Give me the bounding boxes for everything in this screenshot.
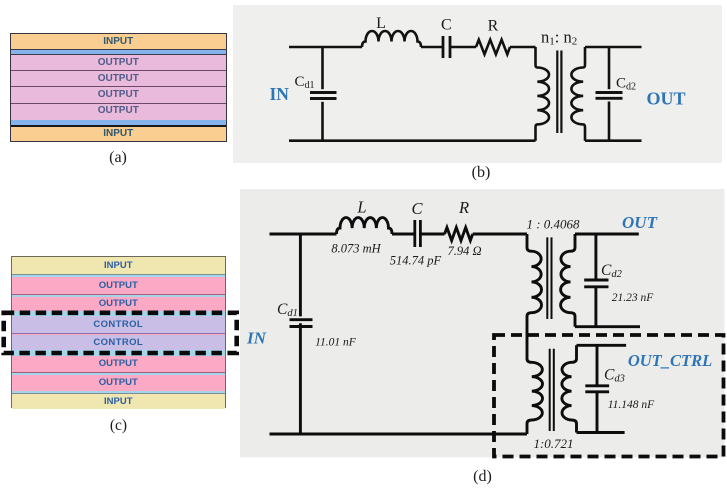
caption (b) bbox=[466, 164, 496, 182]
wire bottom bbox=[289, 139, 536, 142]
wire OUT_CTRL top bbox=[577, 344, 627, 347]
svg-text:C: C bbox=[411, 199, 423, 218]
caption (d) bbox=[468, 468, 498, 486]
svg-text:R: R bbox=[488, 18, 499, 35]
wire secondary bottom to OUT bbox=[585, 139, 642, 142]
capacitor Cd2 bbox=[608, 47, 611, 89]
svg-text:OUT: OUT bbox=[647, 89, 686, 109]
separator blue bbox=[12, 391, 226, 394]
wire top mid1 bbox=[392, 233, 415, 236]
svg-text:OUT: OUT bbox=[622, 213, 658, 232]
caption (a) bbox=[103, 149, 133, 167]
wire top mid3 bbox=[473, 233, 527, 236]
svg-text:11.148 nF: 11.148 nF bbox=[608, 399, 655, 411]
layer OUTPUT 4 bbox=[11, 104, 227, 119]
separator blue bbox=[12, 275, 226, 277]
svg-text:1 : 0.4068: 1 : 0.4068 bbox=[526, 217, 580, 232]
wire OUT top bbox=[575, 233, 639, 236]
electrode black line bbox=[11, 125, 227, 128]
panel background bbox=[240, 189, 725, 457]
svg-text:7.94 Ω: 7.94 Ω bbox=[447, 244, 481, 258]
resistor R bbox=[476, 40, 510, 55]
wire OUT_CTRL bottom bbox=[577, 431, 625, 434]
layer OUTPUT 1 bbox=[11, 56, 227, 71]
layer OUTPUT 3 bbox=[12, 356, 226, 374]
transformer T1 secondary winding bbox=[561, 234, 575, 327]
layer INPUT top bbox=[12, 257, 226, 275]
wire secondary top to OUT bbox=[585, 46, 642, 49]
transformer T1 core bbox=[546, 237, 548, 319]
svg-text:11.01 nF: 11.01 nF bbox=[315, 337, 357, 349]
svg-text:IN: IN bbox=[270, 84, 290, 104]
transformer T1+T2 primary windings bbox=[527, 234, 542, 434]
layer CONTROL 2 bbox=[12, 335, 226, 351]
separator blue bbox=[12, 373, 226, 375]
svg-text:514.74 pF: 514.74 pF bbox=[390, 254, 442, 268]
inductor L bbox=[362, 31, 421, 47]
caption (c) bbox=[104, 417, 134, 435]
transformer secondary winding bbox=[571, 47, 585, 141]
layer INPUT bottom bbox=[12, 394, 226, 409]
wire OUT bottom bbox=[575, 325, 640, 328]
resistor R bbox=[445, 228, 473, 241]
panel background bbox=[233, 5, 722, 163]
layer OUTPUT 4 bbox=[12, 375, 226, 391]
dashed box OUT_CTRL bbox=[494, 335, 724, 457]
layer OUTPUT 1 bbox=[12, 277, 226, 295]
svg-text:8.073 mH: 8.073 mH bbox=[331, 242, 381, 256]
capacitor Cd3 bbox=[596, 345, 599, 386]
separator blue (under dashes) bbox=[12, 350, 226, 356]
svg-text:21.23 nF: 21.23 nF bbox=[612, 292, 655, 304]
capacitor C bbox=[413, 220, 416, 247]
layer OUTPUT 2 bbox=[11, 72, 227, 88]
dashed selection box around CONTROL layers bbox=[0, 305, 245, 361]
layer OUTPUT 3 bbox=[11, 88, 227, 104]
svg-text:OUT_CTRL: OUT_CTRL bbox=[628, 351, 712, 370]
transformer T2 core bbox=[549, 349, 551, 431]
layer CONTROL 1 bbox=[12, 316, 226, 334]
svg-text:R: R bbox=[458, 198, 469, 217]
svg-text:1:0.721: 1:0.721 bbox=[533, 436, 573, 451]
separator blue (under dashes) bbox=[12, 311, 226, 316]
transformer core bbox=[556, 51, 558, 134]
wire top mid3 bbox=[510, 46, 536, 49]
capacitor Cd1 bbox=[299, 234, 302, 316]
wire top mid2 bbox=[450, 46, 476, 49]
capacitor Cd1 bbox=[321, 47, 324, 89]
capacitor C bbox=[442, 36, 445, 58]
transformer primary winding bbox=[536, 47, 550, 141]
svg-text:IN: IN bbox=[246, 329, 267, 348]
insulation layer blue top bbox=[11, 50, 227, 56]
svg-text:C: C bbox=[441, 17, 452, 34]
separator blue bbox=[12, 295, 226, 297]
svg-text:L: L bbox=[376, 15, 386, 32]
layer INPUT bottom bbox=[11, 127, 227, 140]
wire bottom bbox=[270, 433, 528, 436]
transformer T2 secondary winding bbox=[562, 345, 577, 432]
capacitor Cd2 bbox=[594, 234, 597, 280]
wire top left bbox=[270, 233, 337, 236]
wire top mid2 bbox=[420, 233, 444, 236]
layer INPUT top bbox=[11, 34, 227, 50]
layer OUTPUT 2 bbox=[12, 297, 226, 311]
inductor L bbox=[337, 218, 393, 234]
svg-text:L: L bbox=[356, 198, 366, 217]
wire top mid1 bbox=[421, 46, 443, 49]
insulation layer blue bottom bbox=[11, 120, 227, 125]
wire top left bbox=[289, 46, 362, 49]
